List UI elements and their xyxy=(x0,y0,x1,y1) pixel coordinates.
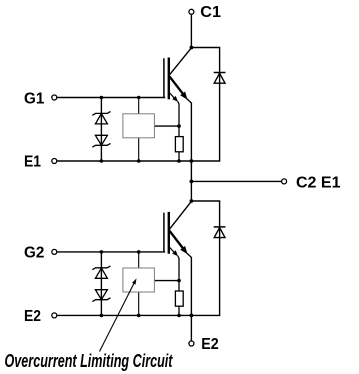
svg-text:E2: E2 xyxy=(24,308,41,325)
svg-text:G1: G1 xyxy=(24,90,45,107)
svg-text:Overcurrent Limiting Circuit: Overcurrent Limiting Circuit xyxy=(5,351,174,371)
svg-text:G2: G2 xyxy=(24,245,44,262)
svg-text:C1: C1 xyxy=(200,4,221,21)
svg-text:E2: E2 xyxy=(201,336,219,353)
svg-text:C2 E1: C2 E1 xyxy=(296,174,341,191)
svg-text:E1: E1 xyxy=(24,153,41,170)
